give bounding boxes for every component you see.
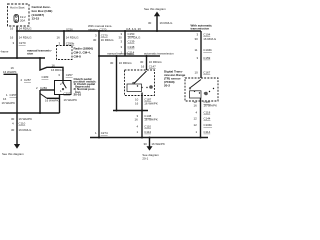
svg-text:30: 30 xyxy=(148,21,152,25)
svg-text:16: 16 xyxy=(141,64,145,68)
svg-text:C114: C114 xyxy=(204,130,211,134)
svg-text:11: 11 xyxy=(195,48,198,52)
svg-text:C110: C110 xyxy=(19,122,26,126)
svg-text:10: 10 xyxy=(195,71,199,75)
svg-text:16 RD/LG: 16 RD/LG xyxy=(19,128,33,132)
svg-text:20-2: 20-2 xyxy=(164,84,170,88)
svg-text:30: 30 xyxy=(93,38,97,42)
svg-text:30: 30 xyxy=(195,37,199,41)
svg-text:C257: C257 xyxy=(64,91,71,95)
svg-text:12: 12 xyxy=(194,117,198,121)
svg-text:S236: S236 xyxy=(66,28,73,32)
svg-text:30: 30 xyxy=(110,61,114,65)
svg-text:C110: C110 xyxy=(144,125,151,129)
svg-text:C118: C118 xyxy=(204,111,211,115)
svg-text:C257: C257 xyxy=(66,73,73,77)
svg-text:C104b: C104b xyxy=(204,123,213,127)
svg-text:C114: C114 xyxy=(144,130,151,134)
svg-text:16 WH/PK: 16 WH/PK xyxy=(64,98,78,102)
svg-text:See this diagram: See this diagram xyxy=(144,7,166,11)
svg-text:16: 16 xyxy=(52,63,56,67)
svg-text:sion: sion xyxy=(27,52,33,56)
svg-text:30: 30 xyxy=(11,117,15,121)
svg-text:C139: C139 xyxy=(128,40,135,44)
svg-text:16: 16 xyxy=(57,36,61,40)
svg-text:16 WH/PK: 16 WH/PK xyxy=(19,117,33,121)
svg-text:20-1: 20-1 xyxy=(142,156,148,160)
svg-text:C270: C270 xyxy=(19,41,26,45)
svg-text:14 RD/LG: 14 RD/LG xyxy=(19,26,33,30)
svg-text:C167: C167 xyxy=(203,71,210,75)
svg-text:C159: C159 xyxy=(203,56,210,60)
svg-text:C290b: C290b xyxy=(66,41,75,45)
svg-text:16: 16 xyxy=(10,36,14,40)
svg-text:C274: C274 xyxy=(101,131,108,135)
svg-text:16 WH/PK: 16 WH/PK xyxy=(144,118,158,122)
svg-text:manual transmission: manual transmission xyxy=(107,52,134,56)
svg-text:16 RD/LG: 16 RD/LG xyxy=(149,60,163,64)
svg-text:20-10: 20-10 xyxy=(74,92,82,96)
svg-text:16 WH/PK: 16 WH/PK xyxy=(144,101,158,105)
svg-text:16 RD/LG: 16 RD/LG xyxy=(160,21,174,25)
svg-text:30: 30 xyxy=(140,60,144,64)
svg-text:See this diagram: See this diagram xyxy=(2,152,24,156)
svg-text:C283: C283 xyxy=(42,75,49,79)
svg-text:16 WH/PK: 16 WH/PK xyxy=(2,101,16,105)
svg-text:14 RD/LG: 14 RD/LG xyxy=(19,36,33,40)
svg-text:16: 16 xyxy=(10,26,14,30)
svg-text:16 WH/PK: 16 WH/PK xyxy=(3,70,17,74)
svg-text:16: 16 xyxy=(135,118,139,122)
svg-text:C138: C138 xyxy=(128,45,135,49)
svg-text:13-15: 13-15 xyxy=(32,17,40,21)
svg-text:C270: C270 xyxy=(101,34,108,38)
svg-text:14 RD/LG: 14 RD/LG xyxy=(66,36,80,40)
svg-text:16 RD/LG: 16 RD/LG xyxy=(101,38,115,42)
svg-text:mission, C270: mission, C270 xyxy=(88,27,107,31)
svg-text:20A: 20A xyxy=(20,19,25,23)
svg-text:16 WH/PK: 16 WH/PK xyxy=(151,142,165,146)
svg-text:C283: C283 xyxy=(40,86,47,90)
svg-text:C144: C144 xyxy=(204,117,211,121)
svg-text:transmission: transmission xyxy=(191,26,210,30)
svg-text:16 RD/LG: 16 RD/LG xyxy=(51,68,65,72)
svg-text:CM-8: CM-8 xyxy=(74,54,82,58)
svg-text:Hot in Start: Hot in Start xyxy=(10,6,25,10)
svg-text:3-8, 4-9, 2V: 3-8, 4-9, 2V xyxy=(126,27,141,31)
svg-text:C104b: C104b xyxy=(203,48,212,52)
svg-text:-frame: -frame xyxy=(0,50,9,54)
svg-text:automatic transmission: automatic transmission xyxy=(144,52,174,56)
svg-text:C147: C147 xyxy=(149,64,156,68)
svg-text:C104: C104 xyxy=(203,32,210,36)
svg-text:16 WH/PK: 16 WH/PK xyxy=(45,99,59,103)
svg-text:12: 12 xyxy=(194,123,198,127)
svg-text:16 RD/LG: 16 RD/LG xyxy=(119,61,133,65)
svg-text:30: 30 xyxy=(11,128,15,132)
svg-text:C257: C257 xyxy=(10,93,17,97)
svg-text:16 WH/PK: 16 WH/PK xyxy=(204,103,218,107)
svg-text:16: 16 xyxy=(135,101,139,105)
svg-text:C257: C257 xyxy=(24,78,31,82)
svg-text:16 RD/LG: 16 RD/LG xyxy=(203,37,217,41)
svg-text:16: 16 xyxy=(194,103,198,107)
svg-text:30: 30 xyxy=(144,142,148,146)
